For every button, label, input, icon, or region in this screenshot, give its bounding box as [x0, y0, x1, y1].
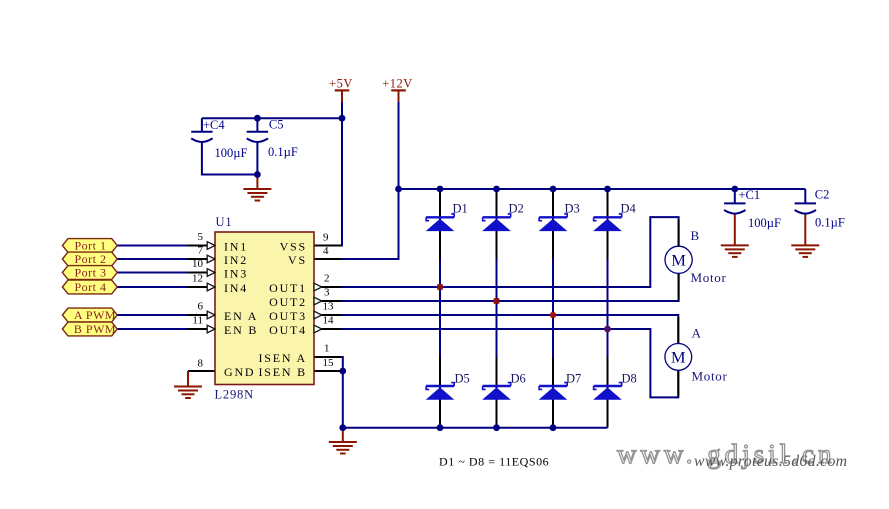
svg-text:1: 1: [324, 343, 330, 355]
svg-text:Port 2: Port 2: [74, 252, 106, 266]
svg-text:Port 3: Port 3: [74, 266, 106, 280]
svg-text:Motor: Motor: [691, 270, 727, 285]
svg-text:M: M: [671, 250, 685, 269]
svg-text:ISEN A: ISEN A: [259, 351, 307, 365]
svg-text:D8: D8: [622, 372, 637, 386]
svg-text:B: B: [691, 228, 700, 243]
svg-text:2: 2: [324, 273, 330, 285]
svg-text:GND: GND: [224, 365, 255, 379]
svg-text:A: A: [692, 325, 702, 340]
svg-text:4: 4: [323, 245, 329, 257]
svg-text:OUT1: OUT1: [269, 281, 307, 295]
svg-text:3: 3: [324, 287, 330, 299]
svg-text:M: M: [671, 348, 685, 367]
svg-text:IN2: IN2: [224, 253, 248, 267]
svg-text:ISEN B: ISEN B: [259, 365, 307, 379]
svg-text:VS: VS: [288, 253, 307, 267]
svg-text:D5: D5: [455, 372, 470, 386]
svg-text:VSS: VSS: [280, 239, 307, 253]
svg-text:U1: U1: [216, 215, 233, 229]
svg-text:6: 6: [198, 301, 204, 313]
svg-text:+C1: +C1: [739, 188, 761, 202]
svg-text:D7: D7: [566, 372, 581, 386]
svg-text:www.proteus.5d6d.com: www.proteus.5d6d.com: [694, 453, 847, 470]
svg-text:IN4: IN4: [224, 281, 248, 295]
svg-text:EN B: EN B: [224, 323, 258, 337]
svg-text:Port 1: Port 1: [74, 239, 106, 253]
svg-text:Motor: Motor: [692, 369, 728, 384]
svg-text:+5V: +5V: [329, 77, 353, 91]
svg-text:OUT3: OUT3: [269, 309, 307, 323]
svg-text:8: 8: [198, 358, 204, 370]
svg-text:IN1: IN1: [224, 239, 248, 253]
svg-text:D6: D6: [511, 372, 526, 386]
svg-text:B PWM: B PWM: [74, 322, 116, 336]
svg-text:D3: D3: [565, 202, 580, 216]
svg-text:0.1µF: 0.1µF: [815, 216, 845, 230]
svg-text:100µF: 100µF: [748, 216, 781, 230]
svg-text:Port 4: Port 4: [74, 280, 106, 294]
svg-text:100µF: 100µF: [215, 146, 248, 160]
svg-text:14: 14: [323, 315, 335, 327]
svg-text:A PWM: A PWM: [74, 308, 116, 322]
svg-text:+C4: +C4: [203, 118, 225, 132]
svg-text:C5: C5: [269, 118, 284, 132]
svg-text:11: 11: [192, 315, 203, 327]
svg-text:12: 12: [192, 273, 203, 285]
svg-text:0.1µF: 0.1µF: [268, 145, 298, 159]
svg-text:D1: D1: [453, 202, 468, 216]
svg-text:D4: D4: [621, 202, 637, 216]
svg-text:OUT4: OUT4: [269, 323, 307, 337]
svg-text:EN A: EN A: [224, 309, 258, 323]
svg-text:5: 5: [198, 231, 204, 243]
svg-text:7: 7: [198, 245, 204, 257]
svg-text:15: 15: [323, 357, 335, 369]
svg-text:9: 9: [323, 232, 329, 244]
svg-text:IN3: IN3: [224, 266, 248, 280]
svg-text:10: 10: [192, 258, 204, 270]
svg-text:L298N: L298N: [215, 387, 254, 401]
svg-text:D2: D2: [509, 202, 524, 216]
svg-text:+12V: +12V: [382, 77, 413, 91]
svg-text:D1 ~ D8 = 11EQS06: D1 ~ D8 = 11EQS06: [439, 454, 549, 468]
svg-text:C2: C2: [815, 188, 830, 202]
svg-text:13: 13: [323, 301, 335, 313]
svg-text:OUT2: OUT2: [269, 295, 307, 309]
